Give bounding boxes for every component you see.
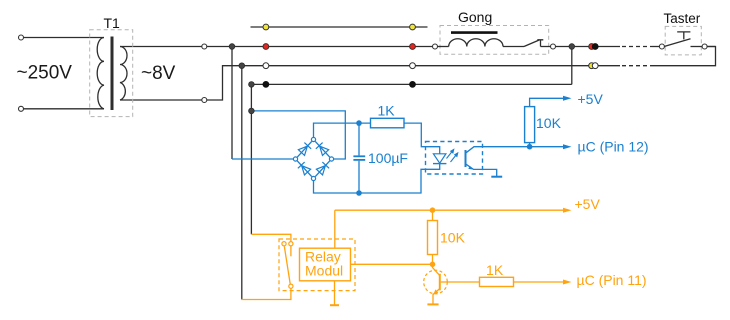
wire red row [207,46,433,48]
node junction orange rail [430,207,436,213]
ground opto emitter [491,176,502,178]
gong dashed box [440,26,549,55]
bridge terminal left [293,157,297,161]
opto emitter to ground [466,164,497,176]
arrow uC Pin11 [563,280,572,285]
blue 10K bottom wire [529,143,531,147]
node junction blue 10K/uC [527,144,533,150]
transformer T1 core [111,37,114,111]
arrow uC Pin12 [563,144,572,149]
splice yellow-white [589,63,595,69]
resistor 10K orange [428,221,438,255]
svg-text:100µF: 100µF [368,150,408,166]
wire white row dashed gap [622,65,652,67]
svg-text:+5V: +5V [575,196,601,212]
wire dot yellow 1 [263,24,269,30]
transformer T1 secondary winding [120,47,127,101]
blue 10K top wire to +5V [530,98,564,106]
svg-text:10K: 10K [536,115,562,131]
bridge rectifier diodes [298,143,311,156]
wire red row dashed gap [622,46,652,48]
relay contact common [289,284,293,288]
wire vertical red node to bridge [231,47,233,160]
wire white row right end up to taster return [652,47,716,66]
wire yellow row [251,26,428,28]
wire 10K orange top [432,210,434,220]
bridge terminal right [329,157,333,161]
bridge terminal top [311,137,315,141]
transformer T1 primary winding [97,38,104,109]
transistor Q1 [424,270,448,294]
wire +5V rail orange [335,209,564,211]
node junction cap top [356,120,362,126]
transistor collector wire [433,264,440,275]
node junction orange base [430,262,436,268]
svg-text:+5V: +5V [578,91,604,107]
wire +5V rail down to relay [334,210,336,248]
resistor 1K blue [371,118,405,128]
terminal secondary top [202,44,207,49]
wire vertical black node down [250,84,252,234]
svg-text:1K: 1K [486,262,504,278]
gong interrupter switch blade [524,40,539,47]
wire 1K to opto LED [404,123,440,154]
transistor base lead [441,281,480,283]
relay contact NO [289,242,293,246]
terminal gong input [433,44,438,49]
svg-text:10K: 10K [440,230,466,246]
svg-text:1K: 1K [377,103,395,119]
capacitor 100uF plates [353,155,365,157]
ground relay [330,304,339,306]
taster dashed box [665,26,701,55]
arrow +5V blue [563,96,572,101]
relay contact stub [290,246,292,256]
gong switch fixed contact [537,40,543,47]
wire gong input [437,46,448,48]
svg-text:Gong: Gong [458,9,492,25]
node junction black/bridge [249,108,255,114]
svg-text:T1: T1 [104,15,121,31]
wire to taster left [652,46,660,48]
node junction cap bottom [356,190,362,196]
wire bottom rail [314,164,440,193]
wire primary top lead [23,37,104,39]
svg-text:Taster: Taster [664,11,701,26]
wire secondary bottom to node [120,99,202,101]
terminal primary bottom [19,106,24,111]
arrow +5V orange [563,208,572,213]
wire secondary top to node [120,46,202,48]
resistor 1K orange [480,277,514,286]
terminal taster right [702,44,707,49]
wire dot black 1 [263,82,269,88]
bridge diamond edges [297,141,330,176]
wire dot black 2 [410,82,416,88]
wire red vertical to bridge left [232,158,293,160]
relay module box [300,248,351,281]
bridge terminal bottom [311,176,315,180]
wire dot white 2 [410,63,416,69]
wire cap branch upper [358,123,360,155]
wire taster right lead [707,46,716,48]
wire 1K orange to uC Pin11 [514,281,564,283]
gong coil L [449,39,503,47]
relay coil ground stem [334,281,336,305]
relay module dashed box [279,239,355,291]
svg-text:~8V: ~8V [141,63,176,84]
opto LED [433,154,446,163]
opto emitter arrowhead [468,166,474,170]
wire switch to gong output [541,46,551,48]
wire coil to switch [503,46,524,48]
relay contact NC [282,242,286,246]
wire primary bottom lead [23,108,104,110]
node junction red/bridge [229,44,235,50]
svg-text:~250V: ~250V [17,63,73,84]
relay common lead to white vertical [241,288,291,299]
wire vertical white node to relay common [241,66,243,300]
node junction white/relay [239,63,245,69]
transformer T1 dashed box [90,30,133,117]
wire cap branch lower [358,161,360,193]
resistor 10K blue [525,107,535,143]
taster fixed side [691,46,703,48]
svg-text:µC (Pin 11): µC (Pin 11) [577,272,647,288]
wire 10K orange bottom [432,255,434,265]
terminal taster left [659,44,664,49]
opto phototransistor base bar [465,150,467,167]
svg-text:Modul: Modul [305,263,343,279]
wire black row [251,83,571,85]
svg-text:µC (Pin 12): µC (Pin 12) [578,138,649,154]
wire white row with corner from transformer [207,66,620,100]
taster switch blade [664,39,690,47]
wire bridge top to cap node [314,123,371,137]
wire gong output to taster [555,46,620,48]
gong striker bar [451,31,498,34]
node junction gong output [569,44,575,50]
splice red-black [589,44,595,50]
node junction black row start [249,82,255,88]
taster button T [677,32,690,40]
transistor emitter arrowhead [433,289,438,294]
relay blade [284,246,290,284]
terminal gong output [551,44,556,49]
terminal secondary bottom [202,98,207,103]
wire black row riser to gong output node [571,47,573,85]
optocoupler dashed box [426,142,483,175]
opto LED light arrows [447,150,458,163]
wire black node to bridge right [251,111,345,159]
ground transistor emitter [427,303,438,305]
transistor emitter wire [433,289,440,305]
wire relay out to 10K node [351,263,433,265]
wire dot yellow 2 [410,24,416,30]
opto output collector wire [466,147,564,154]
wire dot red 1 [263,44,269,50]
wire dot white 1 [263,63,269,69]
wire dot red 2 [410,44,416,50]
terminal primary top [19,35,24,40]
relay NO lead from black vertical [251,234,291,241]
